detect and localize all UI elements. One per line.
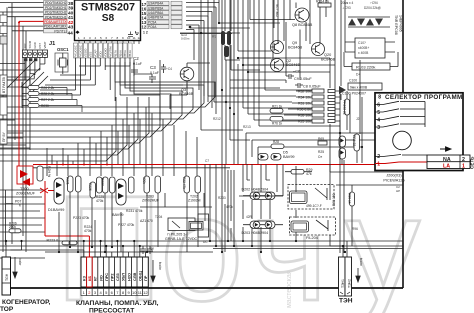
resistor R25b — [318, 150, 324, 159]
wire left edge verticals — [3, 3, 30, 252]
svg-text:у: у — [345, 164, 420, 313]
diode pair D202 — [242, 188, 284, 200]
NA LA table — [427, 155, 470, 170]
svg-text:R226: R226 — [88, 183, 92, 191]
diode D2 BAV99 stadium — [112, 170, 126, 217]
svg-text:D5: D5 — [283, 151, 288, 155]
transistor Q8 — [292, 8, 313, 27]
svg-text:R96 1k: R96 1k — [348, 193, 352, 204]
resistor R223 0 — [47, 238, 78, 245]
svg-text:R34 10k: R34 10k — [298, 96, 311, 100]
svg-text:R95 150: R95 150 — [332, 193, 336, 206]
pin number boxes — [81, 289, 148, 296]
resistor R21 — [270, 105, 283, 114]
resistor R206 200k — [9, 222, 21, 233]
bottom-center connector — [81, 257, 148, 296]
svg-text:tcxbr: tcxbr — [18, 258, 22, 266]
resistor rows R26/R27 — [22, 82, 82, 112]
L-bend bus from MCU bottom to left — [0, 60, 215, 161]
svg-text:R65: R65 — [318, 137, 324, 141]
MCU U1 STM8S207 box — [68, 0, 141, 41]
J1 connector — [0, 40, 55, 87]
resistor PR102 22 vertical — [343, 91, 350, 130]
svg-text:PB4A: PB4A — [128, 50, 132, 57]
resistor R96 vertical — [348, 185, 355, 246]
svg-text:D203 H04B2904: D203 H04B2904 — [242, 231, 269, 235]
svg-text:Q9: Q9 — [292, 41, 297, 45]
svg-text:Q20: Q20 — [324, 53, 331, 57]
MCU left pin numbers 38-44 — [68, 1, 74, 31]
svg-text:C9 0.05uF: C9 0.05uF — [294, 77, 312, 81]
svg-text:R27 2.2k: R27 2.2k — [41, 98, 55, 102]
svg-text:R28: R28 — [273, 140, 279, 144]
capacitor C8 — [295, 83, 321, 89]
svg-text:ТЭН2: ТЭН2 — [348, 279, 352, 288]
labels T203 T202 — [142, 195, 201, 203]
svg-text:НР: НР — [396, 189, 400, 193]
svg-text:1: 1 — [462, 164, 465, 170]
top-right far block: varistor TNR — [348, 15, 403, 35]
MCU left pin name labels — [44, 1, 67, 33]
vertical resistor labels — [66, 177, 187, 191]
wire top-center verticals — [180, 0, 280, 130]
capacitor C100 — [342, 79, 382, 96]
diode pair D203 — [242, 221, 284, 235]
thick mains vertical wire — [402, 0, 404, 288]
svg-text:R227: R227 — [101, 178, 105, 186]
svg-text:14EP4995: 14EP4995 — [399, 15, 403, 32]
svg-text:VDD: VDD — [99, 51, 103, 57]
svg-text:VCAP: VCAP — [94, 50, 98, 58]
MCU bottom pin ticks and numbers — [79, 41, 139, 44]
svg-text:4: 4 — [377, 118, 380, 124]
svg-text:GND: GND — [33, 42, 37, 48]
svg-text:SWIM: SWIM — [28, 40, 32, 48]
svg-text:PD5/UART3TX: PD5/UART3TX — [44, 20, 67, 24]
red triac T200 — [17, 166, 33, 186]
svg-text:U4B/PB7A: U4B/PB7A — [148, 16, 164, 20]
svg-text:PR102 22: PR102 22 — [343, 100, 347, 115]
svg-text:+C4: +C4 — [166, 67, 172, 71]
svg-text:D1BAV99: D1BAV99 — [48, 208, 64, 212]
svg-text:R212: R212 — [213, 117, 221, 121]
svg-text:1: 1 — [377, 162, 380, 168]
vertical drops from MCU bottom boxes — [30, 58, 187, 121]
svg-text:СЕТЬ: СЕТЬ — [470, 156, 474, 169]
svg-text:PB7A: PB7A — [113, 50, 117, 57]
resistor R103 220k — [344, 52, 398, 70]
svg-text:J2: J2 — [356, 117, 360, 121]
left edge vertical connector labels — [0, 15, 7, 144]
selector box — [375, 93, 463, 171]
svg-text:VBAT: VBAT — [43, 41, 47, 48]
svg-text:3V3: 3V3 — [23, 43, 27, 48]
capacitor C9 — [286, 74, 312, 81]
svg-text:R?: R? — [212, 35, 216, 39]
svg-text:C10?: C10? — [358, 41, 366, 45]
svg-text:J200(X3): J200(X3) — [386, 174, 402, 178]
svg-text:0.05m: 0.05m — [181, 37, 190, 41]
svg-text:PD3/TIM2CH2: PD3/TIM2CH2 — [45, 11, 67, 15]
svg-text:470k: 470k — [96, 199, 104, 203]
svg-text:NA: NA — [443, 157, 451, 163]
resistor ladder rows — [280, 55, 340, 160]
svg-text:ИО: ИО — [98, 275, 103, 281]
svg-text:ПРЕССОСТАТ: ПРЕССОСТАТ — [89, 308, 135, 313]
svg-text:12: 12 — [138, 36, 142, 40]
resistor PR6 22 vertical — [352, 134, 360, 151]
MCU right pin numbers — [142, 2, 148, 35]
svg-text:ТЭН: ТЭН — [339, 298, 353, 305]
svg-text:499-1C?-F: 499-1C?-F — [306, 204, 322, 208]
wire below red bus — [33, 168, 230, 207]
svg-text:42R: 42R — [246, 215, 253, 219]
svg-text:ПР ВУ: ПР ВУ — [2, 131, 6, 142]
svg-text:10: 10 — [132, 290, 137, 295]
svg-text:FIL204: FIL204 — [306, 236, 318, 240]
wire mid verticals comb — [47, 107, 197, 176]
svg-text:12: 12 — [142, 25, 147, 30]
svg-text:P227 470k: P227 470k — [118, 223, 135, 227]
svg-text:VSSIO: VSSIO — [84, 48, 88, 58]
capacitor C2 — [131, 56, 142, 76]
svg-text:R2H %: R2H % — [47, 166, 51, 177]
svg-text:R22 47k: R22 47k — [182, 177, 186, 189]
svg-text:PICEWA125: PICEWA125 — [383, 179, 404, 183]
svg-text:D204 22k@: D204 22k@ — [364, 6, 381, 10]
MCU right pin label boxes — [147, 1, 169, 29]
svg-text:8: 8 — [378, 95, 381, 101]
svg-text:RST: RST — [38, 43, 42, 49]
svg-text:УБЛ: УБЛ — [121, 273, 126, 281]
label Gnd — [181, 33, 190, 41]
svg-text:х 400В: х 400В — [358, 51, 369, 55]
resistor R29 47k — [285, 168, 312, 176]
transistor Q9 — [271, 41, 303, 54]
bottom-left caption — [0, 299, 51, 313]
svg-text:Z0902MUF: Z0902MUF — [142, 199, 159, 203]
svg-text:P223 470k: P223 470k — [73, 216, 90, 220]
svg-text:PC5A: PC5A — [148, 20, 157, 24]
right label extra boxes — [171, 1, 182, 29]
svg-text:мастерская: мастерская — [286, 270, 293, 308]
svg-text:R223 0: R223 0 — [47, 238, 59, 242]
mid band wires vertical to bottom — [59, 60, 403, 253]
selector pins 2,1 — [377, 154, 380, 168]
svg-text:PB6A: PB6A — [118, 50, 122, 57]
svg-text:х400В+: х400В+ — [358, 46, 369, 50]
transistor Q3 — [179, 63, 210, 96]
svg-text:ТОР: ТОР — [0, 306, 14, 313]
svg-text:PB5A: PB5A — [123, 50, 127, 57]
svg-text:VDDIO: VDDIO — [103, 48, 107, 58]
top caps row — [341, 1, 381, 10]
svg-text:Н2О: Н2О — [126, 273, 131, 281]
svg-text:PD6/UART3RX: PD6/UART3RX — [44, 25, 67, 29]
svg-text:PD4/TIM2CH1: PD4/TIM2CH1 — [45, 15, 67, 19]
relay PIL205 — [165, 214, 209, 241]
red net pin42 — [19, 21, 464, 257]
svg-text:R221: R221 — [66, 177, 70, 185]
svg-text:BT PA4TB: BT PA4TB — [2, 77, 6, 93]
svg-text:tcxbr: tcxbr — [158, 262, 162, 271]
pin label texts under MCU — [74, 45, 133, 57]
MCU right pin name labels — [148, 2, 164, 30]
svg-text:PR6 22: PR6 22 — [352, 135, 356, 146]
svg-text:C100 P024007: C100 P024007 — [342, 92, 366, 96]
svg-text:U3A/PB4A: U3A/PB4A — [148, 2, 164, 6]
svg-text:BC846B: BC846B — [321, 58, 336, 62]
svg-text:STM8S207: STM8S207 — [81, 2, 135, 14]
svg-text:⊥С93: ⊥С93 — [342, 6, 351, 10]
capacitors on bottom bus — [140, 246, 153, 254]
svg-text:СЛВ: СЛВ — [132, 273, 137, 281]
svg-text:C≡: C≡ — [318, 155, 322, 159]
svg-text:DC: DC — [203, 240, 208, 244]
capacitor C3 — [149, 65, 159, 83]
capacitor C4 — [161, 64, 172, 73]
red cell — [87, 257, 93, 287]
wire mcu-right horizontals — [180, 0, 335, 120]
svg-text:3: 3 — [377, 125, 380, 131]
svg-text:C100: C100 — [349, 79, 357, 83]
scattered tiny labels — [150, 117, 360, 251]
svg-text:КГ: КГ — [93, 276, 98, 281]
svg-text:Z0902MUF: Z0902MUF — [16, 192, 36, 196]
svg-text:Z1902M: Z1902M — [188, 199, 201, 203]
svg-text:20мк х 4: 20мк х 4 — [341, 1, 353, 5]
svg-text:R96: R96 — [352, 227, 358, 231]
svg-text:КБ: КБ — [87, 276, 92, 281]
resistor R76 — [270, 117, 283, 126]
label right of mains — [396, 185, 400, 193]
diode D left — [339, 0, 360, 100]
svg-text:tcxbr: tcxbr — [359, 258, 363, 267]
svg-text:47k: 47k — [306, 172, 312, 176]
svg-text:ПР: ПР — [143, 275, 148, 281]
diode D5 BAV99 — [258, 151, 295, 161]
svg-text:R214 7k: R214 7k — [316, 0, 329, 4]
svg-text:U4A/PB6A: U4A/PB6A — [148, 11, 164, 15]
svg-text:TNR EPC08: TNR EPC08 — [394, 15, 398, 35]
svg-text:R21 1k: R21 1k — [272, 105, 283, 109]
svg-text:⌐C94: ⌐C94 — [370, 1, 378, 5]
arrow right of connector — [151, 260, 162, 282]
capacitor block C10 — [345, 0, 395, 58]
svg-text:PD2/TIM3CH1: PD2/TIM3CH1 — [45, 6, 67, 10]
svg-text:PD7/TLI: PD7/TLI — [54, 29, 66, 33]
selector arrow — [440, 147, 451, 151]
svg-text:ПР2: ПР2 — [110, 273, 115, 281]
svg-text:BC846B: BC846B — [288, 46, 303, 50]
diode D1 BAV99 stadium — [48, 170, 64, 212]
svg-text:R231 470k: R231 470k — [126, 209, 143, 213]
dark resistor pair — [212, 31, 231, 57]
svg-text:12: 12 — [143, 290, 148, 295]
svg-text:⌐C6: ⌐C6 — [293, 70, 300, 74]
svg-text:J1: J1 — [49, 41, 55, 47]
svg-text:R030: R030 — [41, 104, 49, 108]
wires into bottom connector — [84, 220, 146, 257]
relay FIL204 — [290, 217, 336, 240]
svg-text:VSS: VSS — [89, 52, 93, 58]
selector knob — [393, 131, 412, 150]
wire right mid verticals — [201, 0, 403, 164]
bottom-center caption — [76, 300, 159, 313]
svg-text:Q8 BC846B: Q8 BC846B — [292, 23, 313, 27]
resistor R2H vertical — [37, 166, 51, 181]
transistor Q2 — [271, 59, 301, 72]
svg-text:11: 11 — [133, 36, 136, 40]
resistor R28 — [271, 140, 284, 149]
MCU left pin label boxes — [44, 1, 68, 33]
svg-text:PA3/TIM: PA3/TIM — [108, 46, 112, 58]
svg-text:C7: C7 — [205, 159, 209, 163]
svg-text:R25: R25 — [318, 150, 324, 154]
red cut mark — [40, 188, 54, 193]
svg-text:КОГЕНЕРАТОР,: КОГЕНЕРАТОР, — [2, 299, 51, 306]
transistor Q20 — [312, 43, 336, 62]
MCU inner bottom-right symbols — [128, 31, 139, 36]
resistor R65 — [318, 137, 327, 145]
svg-text:ТЭН1: ТЭН1 — [341, 279, 345, 288]
wire top-left label feeds — [0, 3, 44, 31]
svg-text:PA2/OSC: PA2/OSC — [79, 45, 83, 57]
bottom-left connector — [2, 241, 22, 295]
wire diagonals below J1 — [0, 59, 48, 95]
svg-text:T200: T200 — [20, 187, 29, 191]
bottom buses — [0, 241, 403, 258]
svg-text:300k: 300k — [142, 177, 146, 184]
svg-text:КЗ: КЗ — [82, 275, 87, 281]
svg-text:470k: 470k — [226, 205, 233, 209]
svg-text:5: 5 — [377, 110, 380, 116]
svg-text:LA: LA — [443, 164, 450, 170]
svg-text:R26 2.2k: R26 2.2k — [41, 86, 55, 90]
svg-text:C3: C3 — [150, 65, 156, 70]
svg-text:1 2: 1 2 — [143, 31, 148, 35]
svg-text:R213: R213 — [243, 125, 251, 129]
svg-text:AZ1 470: AZ1 470 — [140, 219, 153, 223]
svg-text:BC846B: BC846B — [286, 63, 301, 67]
svg-text:OSC1: OSC1 — [57, 47, 69, 52]
svg-text:ПРС: ПРС — [104, 273, 109, 281]
svg-text:6: 6 — [377, 103, 380, 109]
svg-text:44: 44 — [68, 31, 74, 37]
T200 label — [16, 187, 36, 196]
svg-text:9мк х 400В: 9мк х 400В — [350, 86, 368, 90]
resistor labels band — [73, 195, 153, 233]
svg-text:СЛ3: СЛ3 — [115, 273, 120, 281]
svg-text:S8: S8 — [102, 13, 115, 24]
TEN heater connector — [330, 235, 363, 305]
svg-text:СЕЛЕКТОР ПРОГРАММ: СЕЛЕКТОР ПРОГРАММ — [385, 94, 463, 101]
relay FIL203 — [288, 185, 336, 210]
svg-text:200k: 200k — [9, 225, 16, 229]
svg-text:2: 2 — [462, 157, 465, 163]
svg-text:PC6A: PC6A — [148, 25, 157, 29]
svg-text:C?: C? — [150, 247, 154, 251]
watermark — [55, 164, 420, 313]
svg-text:NCT 3A2: NCT 3A2 — [275, 4, 279, 17]
svg-text:ʀ: ʀ — [19, 204, 21, 208]
svg-text:R103 220k: R103 220k — [356, 65, 375, 70]
pin label boxes row under MCU — [74, 43, 133, 58]
svg-text:43: 43 — [68, 25, 74, 31]
svg-text:470k: 470k — [84, 229, 92, 233]
resistor R214 — [316, 0, 331, 7]
svg-text:ОБЩ: ОБЩ — [138, 271, 143, 281]
svg-text:R233: R233 — [218, 196, 226, 200]
svg-text:R28 2.2k: R28 2.2k — [41, 92, 55, 96]
svg-text:T204: T204 — [155, 215, 162, 219]
svg-text:PD0/TIM3CH2: PD0/TIM3CH2 — [45, 1, 67, 5]
OSC1 crystal — [55, 47, 69, 74]
svg-text:BAV99: BAV99 — [283, 155, 295, 159]
diode D6 pair vertical — [339, 136, 346, 159]
svg-text:2: 2 — [377, 154, 380, 160]
svg-text:R31 10k: R31 10k — [298, 102, 311, 106]
junction dot — [189, 26, 192, 29]
svg-text:D202 H04B2904: D202 H04B2904 — [242, 188, 269, 192]
resistor R07 — [6, 190, 22, 245]
svg-text:C8 0.05uF: C8 0.05uF — [303, 85, 321, 89]
thick bottom line — [9, 287, 403, 289]
J200 label — [383, 174, 404, 183]
svg-text:КЛАПАНЫ, ПОМПА. УБЛ,: КЛАПАНЫ, ПОМПА. УБЛ, — [76, 300, 159, 307]
wire left short horizontals — [0, 80, 45, 232]
svg-text:GRNB-1A-E 12VDC: GRNB-1A-E 12VDC — [165, 237, 198, 241]
svg-text:R76 1k: R76 1k — [272, 122, 283, 126]
svg-text:U3B/PB5A: U3B/PB5A — [148, 6, 164, 10]
svg-text:BAV99: BAV99 — [112, 213, 124, 217]
svg-text:ТGН: ТGН — [5, 273, 9, 281]
vertical resistors band — [68, 176, 201, 198]
svg-text:PA1/OSC: PA1/OSC — [74, 45, 78, 57]
